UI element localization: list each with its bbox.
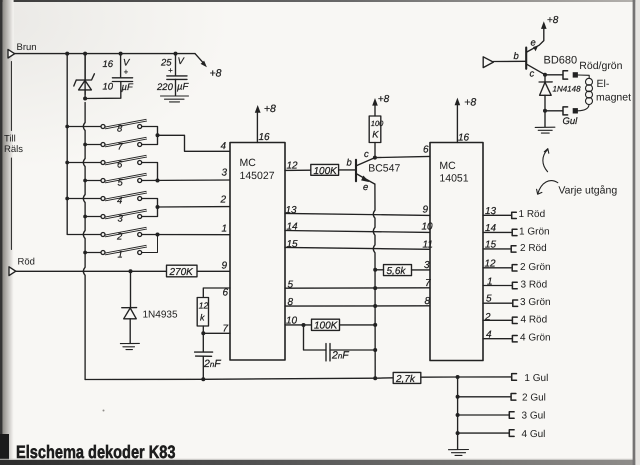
svg-text:4 Grön: 4 Grön: [520, 333, 551, 344]
svg-text:Till: Till: [4, 134, 16, 145]
switch S1: [85, 245, 147, 255]
svg-text:14051: 14051: [439, 173, 468, 185]
svg-text:1: 1: [487, 277, 493, 288]
junction zener anode / C1 return: [83, 97, 87, 101]
svg-text:3: 3: [222, 168, 228, 179]
svg-text:13: 13: [485, 206, 497, 217]
svg-text:+8: +8: [464, 96, 476, 108]
wire: left bus from Brun rail down to switch 2 stub: [67, 54, 101, 235]
svg-text:Varje utgång: Varje utgång: [558, 185, 617, 197]
svg-text:4 Röd: 4 Röd: [521, 314, 548, 325]
switch S2: [101, 227, 147, 237]
svg-text:270K: 270K: [169, 267, 195, 278]
connector 3 Gul: [509, 412, 514, 419]
svg-text:+: +: [124, 68, 129, 77]
junction left bus / Brun rail: [65, 52, 69, 56]
junction S2-S1 pair: [156, 233, 160, 237]
svg-text:c: c: [364, 149, 369, 160]
svg-text:4: 4: [486, 330, 492, 341]
svg-text:k: k: [200, 313, 205, 323]
ground below BD680: [535, 127, 555, 133]
svg-text:1: 1: [222, 224, 228, 235]
svg-text:15: 15: [485, 240, 497, 251]
svg-text:100K: 100K: [314, 166, 339, 177]
svg-text:MC: MC: [439, 160, 456, 172]
wire: base lead BD680: [493, 60, 526, 62]
wire: 145027 pin14 to 14051 pin10: [285, 231, 430, 233]
svg-text:3 Röd: 3 Röd: [521, 279, 548, 290]
svg-text:12: 12: [199, 301, 209, 311]
printed labels: [143, 54, 632, 320]
junction Q1 collector node: [373, 156, 377, 160]
svg-text:2nF: 2nF: [331, 350, 349, 362]
svg-text:145027: 145027: [240, 170, 275, 182]
svg-text:9: 9: [423, 205, 429, 216]
svg-text:16: 16: [103, 59, 114, 70]
svg-text:13: 13: [286, 205, 298, 216]
resistor 5,6k: [384, 265, 412, 276]
svg-text:+: +: [168, 66, 173, 75]
junction left bus / S8: [65, 125, 69, 129]
svg-text:6: 6: [223, 288, 229, 299]
svg-text:15: 15: [287, 239, 299, 250]
svg-text:16: 16: [259, 132, 271, 143]
resistor 12k vertical: [197, 298, 208, 327]
junction Q2 collector node: [543, 73, 547, 77]
curved arrow to outputs: [538, 181, 558, 194]
svg-text:µF: µF: [122, 82, 134, 93]
wire: pin10 node: [285, 324, 312, 326]
wire: Brun main top rail: [15, 53, 196, 55]
svg-text:2,7k: 2,7k: [395, 374, 416, 385]
svg-text:e: e: [531, 38, 536, 49]
svg-text:K: K: [372, 130, 379, 141]
output labels: [519, 209, 551, 440]
svg-text:10: 10: [103, 82, 114, 93]
input connector Brun: [8, 49, 15, 58]
node: Till Rals bracket line: [10, 62, 12, 250]
svg-text:1 Röd: 1 Röd: [519, 209, 546, 220]
wire: Gul node: [545, 110, 562, 112]
wire: pin7 line: [203, 332, 230, 334]
svg-text:Brun: Brun: [17, 42, 37, 53]
svg-text:100: 100: [371, 119, 384, 128]
svg-text:5,6k: 5,6k: [387, 266, 407, 277]
svg-text:7: 7: [223, 324, 229, 335]
svg-text:8: 8: [117, 123, 123, 134]
junction gul tree 3: [456, 413, 460, 417]
junction C2 / Brun rail: [174, 52, 178, 56]
junction gnd bus / 100K line: [373, 323, 377, 327]
junction gnd bus / 2nF line: [373, 348, 377, 352]
junction right bus / S3: [83, 215, 87, 219]
svg-text:+8: +8: [210, 68, 222, 80]
svg-text:8: 8: [288, 297, 294, 308]
connector 4 Gron: [512, 336, 517, 342]
junction S6-S5 pair: [156, 179, 160, 183]
svg-text:12: 12: [287, 161, 299, 172]
wire: 145027 pin8 to 14051 pin8: [285, 305, 430, 307]
svg-text:100K: 100K: [314, 321, 339, 332]
resistor 100K horizontal: [311, 164, 339, 175]
svg-text:220: 220: [156, 82, 174, 93]
wire: pair 4/3 to pin 2: [142, 199, 158, 217]
switch S5: [85, 173, 147, 183]
wire: pair 2/1 to pin 1: [142, 234, 230, 236]
resistor 270K: [167, 265, 198, 277]
junction gul tree top: [456, 375, 460, 379]
ground below 1N4935: [120, 343, 139, 349]
connector 1 Gron: [512, 229, 517, 235]
switch S7: [85, 137, 147, 147]
svg-text:µF: µF: [177, 82, 189, 93]
junction right bus / S7: [83, 143, 87, 147]
wire: collector node to connector: [545, 74, 562, 76]
capacitor C2 220uF: [167, 54, 187, 96]
junction C1 / Brun rail: [119, 52, 123, 56]
wire: bottom ground rail: [85, 378, 393, 380]
IC U1 MC145027 body: [230, 143, 285, 361]
switch S6: [67, 155, 146, 165]
svg-text:b: b: [514, 51, 519, 62]
resistor 100K vertical: [369, 116, 381, 143]
junction 2nF / bottom rail: [201, 377, 205, 381]
connector 4 Rod: [512, 317, 517, 323]
top scan edge bar: [0, 0, 640, 2]
svg-text:4: 4: [221, 141, 227, 152]
svg-text:1N4148: 1N4148: [553, 85, 582, 94]
svg-text:14: 14: [485, 223, 497, 234]
svg-text:Röd: Röd: [18, 257, 35, 268]
junction right bus / S5: [83, 179, 87, 183]
connector 3 Rod: [512, 282, 517, 288]
svg-text:2: 2: [484, 312, 491, 323]
switch S8: [67, 119, 146, 129]
svg-text:6: 6: [423, 145, 429, 156]
connector 2 Gul: [511, 394, 516, 401]
svg-text:1 Grön: 1 Grön: [519, 226, 550, 237]
svg-text:Röd/grön: Röd/grön: [579, 60, 622, 72]
svg-text:2 Röd: 2 Röd: [520, 243, 547, 254]
svg-text:2 Gul: 2 Gul: [522, 392, 546, 403]
wire: pair 8/7 to pin 4: [142, 127, 158, 145]
transistor Q1 BC547: [356, 158, 375, 185]
svg-text:+8: +8: [264, 103, 276, 115]
junction zener bus / Brun rail: [83, 52, 87, 56]
zener diode: [74, 54, 95, 99]
svg-text:1: 1: [118, 250, 123, 261]
svg-text:12: 12: [485, 259, 497, 270]
svg-text:1 Gul: 1 Gul: [524, 373, 548, 384]
wire: pin12 to 100K: [285, 169, 311, 171]
svg-text:16: 16: [458, 133, 470, 144]
svg-text:b: b: [347, 158, 352, 169]
wire: pin16 to +8 arrow (U1): [256, 112, 258, 143]
junction S4-S3 pair: [156, 205, 160, 209]
svg-text:1N4935: 1N4935: [143, 310, 178, 321]
ground below gul tree: [449, 450, 469, 456]
switch S3: [85, 209, 147, 219]
svg-text:2: 2: [116, 231, 123, 242]
wire: right bus (zener bus) with hops over crossing stubs and Rod line: [83, 54, 85, 380]
capacitor 2nF vertical: [195, 333, 213, 379]
svg-text:+8: +8: [547, 15, 559, 26]
svg-text:5: 5: [118, 178, 124, 189]
connector Rod/gron: [563, 71, 568, 79]
input connector Rod: [9, 267, 16, 276]
svg-text:4: 4: [117, 195, 122, 206]
junction left bus / S4: [65, 197, 69, 201]
connector 2 Rod: [511, 246, 516, 252]
svg-text:3: 3: [424, 260, 430, 271]
inductor El-magnet coil: [578, 75, 593, 111]
svg-text:4 Gul: 4 Gul: [522, 429, 546, 440]
diode 1N4148: [539, 75, 552, 127]
IC U2 MC14051 body: [430, 143, 483, 361]
svg-text:8: 8: [425, 296, 431, 307]
junction gnd bus / pin7 line: [373, 286, 377, 290]
resistor 2,7k: [393, 372, 421, 383]
svg-text:Gul: Gul: [563, 116, 579, 127]
resistor 100K lower: [312, 319, 340, 330]
svg-text:3 Gul: 3 Gul: [522, 411, 546, 422]
capacitor 2nF horizontal: [304, 325, 376, 361]
svg-text:5: 5: [288, 280, 294, 291]
svg-text:7: 7: [118, 142, 124, 153]
wire: 145027 pin13 to 14051 pin9: [285, 213, 430, 215]
svg-text:10: 10: [422, 222, 434, 233]
svg-text:El-: El-: [597, 78, 610, 90]
junction pin10 node: [302, 323, 306, 327]
wire: collector node to 14051 pin 6: [375, 156, 430, 157]
node: +8 takeoff top: [195, 54, 205, 65]
svg-text:14: 14: [287, 222, 299, 233]
svg-text:Räls: Räls: [4, 144, 23, 155]
svg-text:magnet: magnet: [596, 92, 631, 104]
wire: Rod line to pin 9: [16, 270, 167, 272]
junction gnd bus / pin8 line: [373, 304, 377, 308]
wire: output lines 14051 right: [483, 214, 511, 216]
junction Rod line / D1: [129, 269, 133, 273]
connector 1 Rod: [512, 212, 517, 218]
junction Gul node Q2: [543, 109, 547, 113]
svg-text:2: 2: [220, 195, 227, 206]
svg-text:9: 9: [222, 261, 228, 272]
ground below C2: [161, 96, 189, 102]
junction gul tree 4: [456, 431, 460, 435]
svg-text:5: 5: [486, 294, 492, 305]
diode 1N4935: [122, 271, 137, 343]
right page border line: [633, 0, 636, 465]
wire: pin6 to 12k: [203, 288, 230, 297]
svg-text:e: e: [363, 182, 368, 193]
svg-text:3: 3: [118, 214, 124, 225]
wire: gul tree: [458, 376, 511, 378]
svg-text:c: c: [530, 69, 535, 80]
svg-text:7: 7: [425, 278, 431, 289]
left scan edge: [0, 0, 3, 465]
junction right bus / S1: [83, 251, 87, 255]
svg-text:+8: +8: [378, 94, 390, 105]
svg-text:2 Grön: 2 Grön: [520, 262, 551, 273]
wire: pin16 to +8 arrow (U2): [456, 105, 458, 143]
svg-text:BC547: BC547: [368, 163, 400, 175]
junction gnd bus / bottom rail: [373, 376, 377, 380]
junction pin7 node: [201, 331, 205, 335]
connector 3 Gron: [513, 300, 518, 306]
connector Gul: [563, 107, 568, 115]
svg-text:BD680: BD680: [544, 54, 578, 66]
svg-text:MC: MC: [240, 157, 257, 169]
input connector to BD680 base: [483, 57, 493, 68]
connector 1 Gul: [512, 374, 517, 381]
junction gnd bus / 5,6k: [373, 268, 377, 272]
svg-text:3 Grön: 3 Grön: [520, 297, 551, 308]
curved arrow up (varje utgang): [543, 150, 548, 172]
transistor Q2 BD680: [526, 21, 546, 74]
junction left bus / S6: [65, 161, 69, 165]
capacitor C1 10uF: [85, 54, 133, 99]
junction S8-S7 pair: [156, 133, 160, 137]
wire: pair 6/5 to pin 3: [142, 163, 158, 181]
junction gul tree 2: [456, 395, 460, 399]
handwritten value labels: [103, 15, 582, 385]
wire: 145027 pin15 to 14051 pin11: [285, 247, 430, 249]
TEXTS: [4, 42, 37, 268]
svg-text:6: 6: [117, 159, 123, 170]
connector 2 Gron: [512, 265, 517, 271]
bottom scan edge bar: [0, 459, 640, 460]
svg-text:Elschema dekoder K83: Elschema dekoder K83: [16, 442, 176, 462]
svg-text:10: 10: [286, 316, 298, 327]
switch S4: [67, 191, 146, 201]
bottom-left black corner block: [0, 434, 9, 465]
wire: 145027 pin5 to 14051 pin7: [285, 287, 430, 289]
svg-text:2nF: 2nF: [203, 358, 221, 370]
svg-text:11: 11: [423, 240, 433, 251]
wire: emitter bus down with hops: [373, 184, 375, 378]
connector 4 Gul: [509, 430, 514, 437]
